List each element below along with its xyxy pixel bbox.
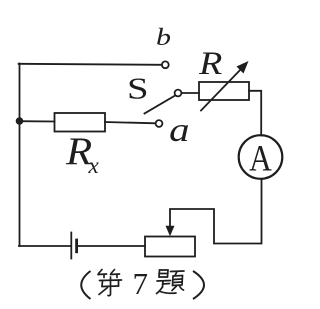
svg-text:a: a — [169, 112, 189, 149]
switch lever — [145, 96, 176, 114]
svg-text:A: A — [249, 138, 272, 179]
rheostat R arrow head — [237, 61, 249, 74]
svg-text:b: b — [156, 24, 171, 51]
wire battery to left — [19, 245, 71, 247]
wire dot to Rx — [20, 120, 55, 122]
rheostat slider box — [145, 237, 195, 257]
svg-text:7: 7 — [133, 266, 149, 301]
battery negative plate — [75, 240, 78, 252]
switch terminal a — [156, 120, 163, 127]
svg-text:S: S — [127, 71, 149, 105]
wire top horizontal — [19, 64, 162, 65]
rheostat R arrow shaft — [201, 68, 242, 111]
node junction dot — [16, 117, 24, 125]
slider arrow head — [166, 226, 175, 237]
caption character di — [98, 270, 122, 296]
wire rheostat to battery — [78, 245, 145, 247]
ammeter A — [239, 135, 283, 179]
wire pole to R — [182, 92, 200, 94]
svg-text:x: x — [88, 153, 100, 178]
caption open paren — [81, 271, 90, 299]
wire Rx to terminal a — [105, 122, 156, 123]
switch terminal b — [162, 61, 169, 68]
wire left vertical — [19, 64, 21, 247]
battery positive plate — [70, 233, 72, 259]
switch pole — [175, 90, 182, 97]
caption character ti — [157, 270, 185, 294]
wire R to ammeter — [249, 91, 261, 136]
wire ammeter to rheostat slider — [170, 179, 262, 244]
rheostat R box — [199, 82, 249, 100]
svg-text:R: R — [198, 44, 223, 81]
resistor Rx — [55, 113, 106, 132]
caption close paren — [193, 271, 204, 299]
